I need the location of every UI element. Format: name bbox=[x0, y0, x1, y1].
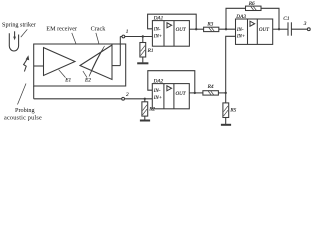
resistor R1 bbox=[140, 37, 146, 63]
DA1 feedback loop wire bbox=[148, 14, 197, 29]
sensor enclosure box bbox=[34, 44, 126, 86]
svg-text:OUT: OUT bbox=[176, 92, 187, 97]
svg-text:Probing: Probing bbox=[15, 107, 35, 114]
svg-text:R1: R1 bbox=[147, 48, 154, 54]
svg-text:IN+: IN+ bbox=[153, 35, 162, 40]
piezo element E2 bbox=[80, 45, 112, 80]
riser wire junction to DA3 IN+ bbox=[226, 36, 236, 93]
junction at DA2 output bbox=[194, 92, 196, 94]
svg-text:OUT: OUT bbox=[176, 28, 187, 33]
svg-text:E2: E2 bbox=[84, 78, 91, 84]
DA3 output wire bbox=[273, 28, 288, 30]
probing acoustic pulse zigzag arrow bbox=[24, 55, 30, 71]
leader line from E2 label bbox=[83, 71, 87, 78]
svg-text:3: 3 bbox=[304, 21, 307, 27]
junction at DA1 output bbox=[195, 28, 197, 30]
svg-text:Spring striker: Spring striker bbox=[2, 21, 36, 28]
junction DA3 out / R6 bbox=[278, 28, 280, 30]
leader line from E1 label bbox=[59, 70, 66, 78]
wire E2 electrode to riser bbox=[112, 65, 120, 67]
node 2 terminal circle bbox=[122, 97, 125, 100]
node 3 terminal circle bbox=[307, 28, 310, 31]
svg-text:DA3: DA3 bbox=[235, 14, 246, 20]
node 1 terminal circle bbox=[122, 35, 125, 38]
wire node 1 horizontal run to DA1 IN+ bbox=[120, 36, 152, 38]
wire node 2 horizontal run to DA2 IN+ bbox=[34, 98, 153, 100]
svg-text:Crack: Crack bbox=[91, 26, 107, 33]
svg-text:R4: R4 bbox=[207, 84, 214, 90]
spring striker U symbol bbox=[9, 33, 18, 51]
svg-text:R6: R6 bbox=[248, 1, 255, 7]
junction R4/R5 bbox=[225, 92, 227, 94]
svg-text:2: 2 bbox=[126, 92, 129, 98]
svg-text:IN-: IN- bbox=[153, 27, 161, 32]
svg-text:IN+: IN+ bbox=[153, 96, 162, 101]
DA2 output wire bbox=[189, 92, 203, 94]
DA2 feedback loop wire bbox=[148, 71, 195, 93]
svg-text:E1: E1 bbox=[64, 78, 71, 84]
wire R4 to junction bbox=[218, 92, 225, 94]
striker motion arrow bbox=[13, 31, 16, 40]
resistor R6 feedback bbox=[226, 6, 279, 29]
junction at R2 top bbox=[144, 98, 146, 100]
svg-text:R3: R3 bbox=[206, 22, 213, 28]
svg-text:1: 1 bbox=[126, 29, 129, 35]
op-amp DA1 bbox=[152, 21, 189, 47]
leader line from Crack label bbox=[96, 33, 99, 44]
leader line from Probing acoustic pulse label bbox=[18, 84, 27, 105]
wire R3 to DA3 IN- bbox=[219, 28, 236, 30]
leader line from EM receiver label bbox=[72, 33, 76, 44]
svg-text:EM receiver: EM receiver bbox=[46, 26, 77, 33]
svg-text:acoustic pulse: acoustic pulse bbox=[4, 114, 42, 121]
crack sliver in E2 bbox=[89, 46, 105, 77]
junction R3/R6 bbox=[225, 28, 227, 30]
svg-text:C1: C1 bbox=[283, 16, 290, 22]
op-amp DA2 bbox=[152, 84, 189, 109]
svg-text:DA1: DA1 bbox=[153, 16, 164, 22]
resistor R4 bbox=[203, 91, 219, 95]
svg-text:IN-: IN- bbox=[236, 28, 244, 33]
resistor R2 bbox=[142, 99, 148, 120]
svg-text:DA2: DA2 bbox=[153, 79, 164, 85]
svg-text:IN-: IN- bbox=[153, 89, 161, 94]
leader line from Spring striker label bbox=[21, 29, 28, 37]
ground under R2 bbox=[140, 120, 150, 122]
junction at R1 top bbox=[142, 35, 144, 37]
piezo element E1 bbox=[44, 48, 76, 76]
ground under R1 bbox=[137, 62, 148, 64]
output wire to node 3 bbox=[291, 28, 307, 30]
wire E1 electrode to box wall bbox=[34, 65, 44, 67]
ground under R5 bbox=[221, 124, 231, 126]
op-amp DA3 bbox=[236, 19, 273, 44]
svg-text:IN+: IN+ bbox=[236, 35, 245, 40]
wire box bottom-left down bbox=[33, 86, 35, 99]
resistor R3 bbox=[204, 27, 219, 31]
resistor R5 bbox=[223, 93, 229, 124]
svg-text:OUT: OUT bbox=[259, 28, 270, 33]
capacitor C1 bbox=[288, 22, 291, 35]
DA1 output wire bbox=[189, 28, 203, 30]
svg-text:R5: R5 bbox=[229, 108, 236, 114]
wire riser E2 to node 1 level bbox=[119, 37, 121, 66]
